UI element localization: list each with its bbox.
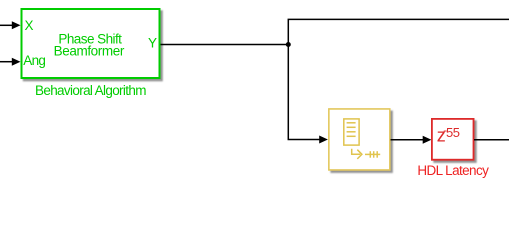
wire delay block to right edge	[474, 139, 509, 141]
svg-text:HDL Latency: HDL Latency	[417, 163, 489, 178]
wire junction down to HDL model block	[288, 45, 328, 144]
wire junction up and to right edge	[288, 19, 509, 44]
svg-text:X: X	[25, 18, 34, 33]
wire into port X	[0, 21, 21, 29]
wire HDL model block to delay block	[391, 136, 432, 144]
junction node	[286, 42, 291, 47]
value label z^-55	[437, 125, 460, 146]
svg-text:Behavioral Algorithm: Behavioral Algorithm	[35, 83, 146, 98]
svg-text:Ang: Ang	[23, 53, 45, 68]
svg-text:55: 55	[446, 125, 460, 140]
svg-text:Beamformer: Beamformer	[54, 44, 125, 59]
wire into port Ang	[0, 58, 21, 66]
block U1 Phase Shift Beamformer (behavioral, green)	[22, 9, 160, 78]
icon waveform with ticks	[365, 151, 380, 158]
wire from Y to junction	[161, 44, 289, 46]
icon document with lines	[344, 119, 359, 145]
icon elbow arrow	[352, 149, 362, 159]
svg-text:Y: Y	[148, 35, 157, 50]
block U2 HDL generated model (yellow)	[329, 109, 390, 170]
block name Phase Shift Beamformer	[54, 31, 125, 58]
block U3 delay z^-55 (red)	[432, 119, 474, 160]
